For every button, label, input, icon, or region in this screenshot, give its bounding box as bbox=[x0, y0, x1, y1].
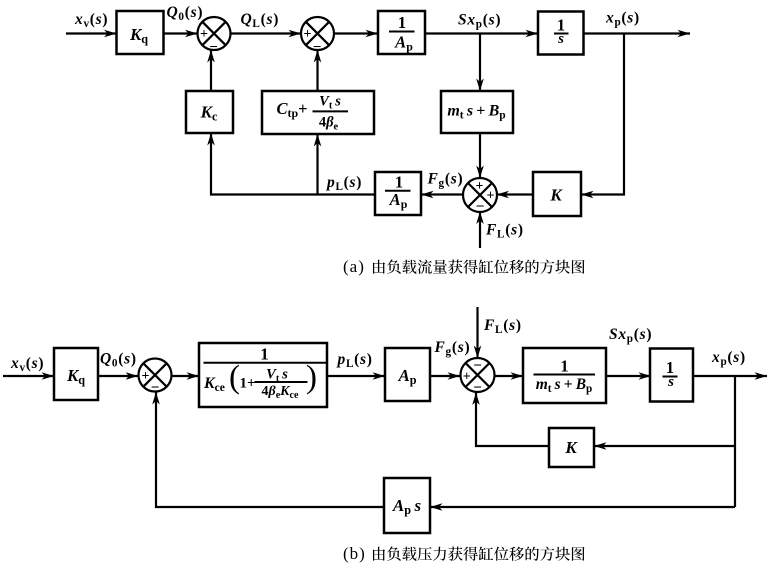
block Kq b bbox=[54, 348, 98, 400]
block Aps b bbox=[384, 478, 430, 533]
svg-text:pL(s): pL(s) bbox=[336, 351, 373, 370]
block K b bbox=[549, 428, 594, 467]
svg-text:1: 1 bbox=[395, 173, 403, 192]
wire FL input b bbox=[474, 307, 482, 358]
svg-text:+: + bbox=[463, 370, 471, 385]
wire 1/Ap to 1/s a bbox=[425, 30, 538, 38]
wire Kc to sum1 a bbox=[207, 50, 215, 91]
caption a bbox=[343, 257, 585, 276]
svg-text:): ) bbox=[306, 360, 317, 396]
wire FL input a bbox=[476, 212, 484, 249]
svg-text:+: + bbox=[142, 369, 150, 384]
wire feedback down from xp a bbox=[581, 34, 624, 199]
wire sum3 to 1/Ap2 a bbox=[421, 191, 464, 199]
block mt s + Bp a bbox=[441, 91, 513, 133]
svg-text:Q0(s): Q0(s) bbox=[100, 351, 137, 370]
summing junction 3 a bbox=[463, 178, 497, 215]
block K a bbox=[533, 172, 581, 216]
block 1/Ap a bbox=[378, 11, 425, 54]
wire 1/s to output a bbox=[584, 30, 691, 38]
svg-text:−: − bbox=[473, 358, 482, 374]
wire Ctp to sum2 a bbox=[314, 50, 322, 91]
svg-text:1: 1 bbox=[560, 356, 568, 375]
wire mt box to sum3 a bbox=[476, 133, 484, 178]
svg-text:K: K bbox=[549, 186, 563, 205]
block Ap b bbox=[385, 348, 430, 401]
svg-text:FL(s): FL(s) bbox=[483, 317, 522, 336]
wire 1/s to output b bbox=[693, 372, 767, 380]
svg-text:xv(s): xv(s) bbox=[10, 355, 44, 374]
svg-text:+: + bbox=[487, 189, 495, 204]
svg-text:K: K bbox=[564, 438, 578, 457]
wire Ap to sum2 b bbox=[430, 372, 460, 380]
wire sum1 to sum2 a bbox=[231, 30, 302, 38]
wire input b bbox=[3, 372, 54, 380]
svg-text:s: s bbox=[557, 31, 564, 47]
svg-text:Fg(s): Fg(s) bbox=[434, 339, 471, 358]
wire sum1 to big box b bbox=[172, 372, 200, 380]
svg-text:+: + bbox=[476, 179, 484, 194]
wire trunk to Aps b bbox=[430, 503, 735, 511]
wire mt box to 1/s b bbox=[606, 372, 651, 380]
svg-text:(b): (b) bbox=[343, 544, 366, 563]
svg-text:xp(s): xp(s) bbox=[711, 349, 746, 368]
svg-text:1+: 1+ bbox=[240, 376, 256, 392]
block 1/s a bbox=[538, 12, 584, 55]
wire branch to K b bbox=[594, 442, 735, 450]
block 1/Ap2 a bbox=[375, 172, 421, 215]
summing junction 2 b bbox=[461, 358, 495, 396]
svg-text:mt s + Bp: mt s + Bp bbox=[536, 376, 593, 395]
svg-text:xp(s): xp(s) bbox=[605, 10, 640, 29]
svg-text:xv(s): xv(s) bbox=[74, 11, 108, 30]
wire Kq to sum1 b bbox=[98, 372, 138, 380]
wire branch down to mt box a bbox=[476, 34, 484, 92]
svg-text:pL(s): pL(s) bbox=[325, 174, 362, 193]
svg-text:1: 1 bbox=[398, 13, 406, 32]
svg-text:s: s bbox=[667, 374, 674, 390]
summing junction 1 a bbox=[198, 17, 231, 56]
summing junction 2 a bbox=[301, 17, 334, 56]
svg-text:(a): (a) bbox=[343, 257, 365, 276]
wire Aps to sum1 b bbox=[152, 392, 384, 507]
wire K to sum2 b bbox=[472, 393, 549, 447]
wire input a bbox=[66, 30, 117, 38]
summing junction 1 b bbox=[139, 359, 172, 397]
svg-text:−: − bbox=[473, 380, 482, 396]
wire sum2 to 1/Ap a bbox=[334, 30, 378, 38]
wire feedback trunk down b bbox=[734, 376, 736, 507]
block Ctp a bbox=[262, 91, 374, 134]
svg-text:Q0(s): Q0(s) bbox=[167, 4, 204, 23]
wire branch up to Ctp a bbox=[314, 134, 322, 195]
block 1/s b bbox=[650, 349, 693, 402]
svg-text:+: + bbox=[200, 27, 208, 42]
svg-text:(: ( bbox=[229, 360, 240, 396]
svg-text:QL(s): QL(s) bbox=[241, 11, 280, 30]
wire K to sum3 a bbox=[497, 191, 534, 199]
svg-text:1: 1 bbox=[260, 345, 269, 364]
caption b bbox=[343, 544, 585, 563]
block Kc a bbox=[186, 91, 233, 133]
svg-text:+: + bbox=[304, 27, 312, 42]
svg-text:mt s + Bp: mt s + Bp bbox=[447, 103, 505, 122]
svg-text:Fg(s): Fg(s) bbox=[427, 171, 464, 190]
wire pL feedback to Kc a bbox=[207, 133, 375, 195]
svg-text:FL(s): FL(s) bbox=[485, 222, 524, 241]
wire Kq to sum1 a bbox=[164, 30, 198, 38]
block 1/(mts+Bp) b bbox=[523, 348, 606, 403]
block Kq a bbox=[117, 11, 164, 54]
wire big box to Ap b bbox=[327, 372, 385, 380]
wire sum2 to mt box b bbox=[495, 372, 524, 380]
block Kce big b bbox=[199, 343, 327, 407]
